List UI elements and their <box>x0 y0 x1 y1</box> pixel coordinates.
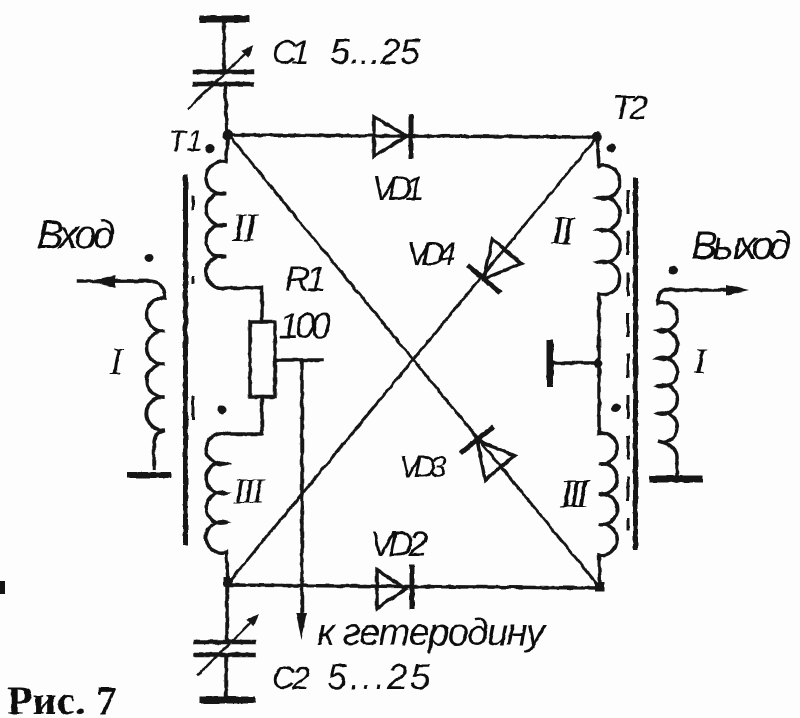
svg-text:I: I <box>109 341 125 383</box>
svg-text:С1: С1 <box>272 34 310 72</box>
svg-text:Т2: Т2 <box>612 89 648 127</box>
svg-text:R1: R1 <box>285 260 326 299</box>
svg-text:Вход: Вход <box>37 213 115 257</box>
svg-text:II: II <box>550 208 576 253</box>
svg-text:VD4: VD4 <box>407 235 456 272</box>
svg-text:VD2: VD2 <box>370 525 428 564</box>
svg-text:Т1: Т1 <box>168 125 203 158</box>
svg-text:III: III <box>232 471 266 511</box>
svg-text:VD3: VD3 <box>399 449 447 484</box>
svg-text:III: III <box>559 471 591 516</box>
svg-text:Выход: Выход <box>691 224 791 268</box>
svg-text:100: 100 <box>279 305 331 346</box>
svg-text:I: I <box>693 341 708 381</box>
svg-text:II: II <box>231 205 259 250</box>
svg-text:5...25: 5...25 <box>330 31 421 72</box>
svg-text:Рис. 7: Рис. 7 <box>7 678 117 718</box>
svg-text:С2: С2 <box>272 660 310 696</box>
svg-text:к гетеродину: к гетеродину <box>317 612 547 654</box>
svg-text:VD1: VD1 <box>372 170 424 208</box>
svg-text:5...25: 5...25 <box>327 656 431 697</box>
